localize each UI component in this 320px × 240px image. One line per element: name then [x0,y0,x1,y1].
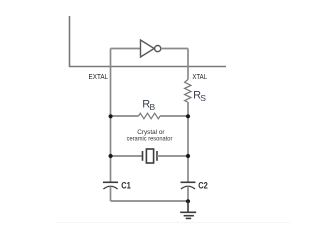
wire: inverter output to right vertical [161,48,188,50]
svg-text:B: B [150,102,156,112]
wire: top loop left vertical (EXTAL net upper) [110,49,112,183]
wire: RS bottom to lower net [187,102,189,182]
crystal Y1: left lead [111,155,143,157]
wire: top horizontal into inverter input [111,48,141,50]
wire: RB right lead [160,115,188,117]
crystal Y1: body rectangle [146,149,153,163]
crystal Y1: right lead [157,155,188,157]
svg-text:S: S [200,93,206,103]
node: crystal right junction [186,154,190,158]
node: crystal left junction [109,154,113,158]
capacitor C1: curved plate [103,186,117,189]
wire: C1 bottom [110,186,112,201]
resistor RB (horizontal zigzag) [139,113,161,119]
capacitor C2: curved plate [181,186,195,189]
node: RB right junction [186,114,190,118]
resistor RS (vertical zigzag) [185,80,191,103]
svg-text:C1: C1 [121,181,131,191]
svg-text:XTAL: XTAL [192,74,207,81]
svg-text:C2: C2 [198,181,208,191]
chip boundary [70,16,227,67]
wire: bottom rail [111,200,189,202]
crystal Y1: left plate [142,151,144,161]
crystal Y1: right plate [156,151,158,161]
ground [180,201,196,218]
capacitor C1: top plate [103,181,118,183]
capacitor C2: top plate [181,181,196,183]
svg-text:ceramic resonator: ceramic resonator [127,135,174,142]
faint page rule at bottom [55,222,291,223]
wire: C2 bottom [187,186,189,201]
op-amp inverter U1 [141,40,161,57]
wire: RB left lead [111,115,139,117]
svg-text:EXTAL: EXTAL [89,74,109,81]
node: RB left junction [109,114,113,118]
wire: right vertical upper (XTAL net) [187,49,189,80]
node: ground junction [186,199,190,203]
